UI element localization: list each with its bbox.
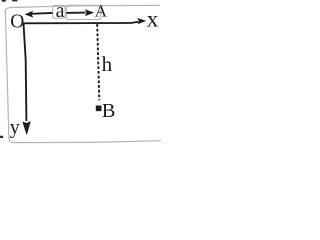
x axis	[23, 22, 139, 24]
cropped text remnant top-left 2	[12, 0, 17, 1]
outer grey frame (no right side)	[5, 5, 161, 142]
point B dot	[96, 106, 102, 112]
dimension arrow right head	[85, 9, 94, 16]
y axis	[24, 23, 27, 121]
svg-text:B: B	[102, 100, 116, 122]
svg-text:a: a	[56, 0, 65, 22]
label box around a	[53, 5, 65, 18]
cropped text remnant top-left	[1, 0, 6, 2]
svg-text:A: A	[95, 2, 108, 21]
dimension arrow left shaft	[31, 12, 53, 15]
dimension arrow right shaft	[66, 12, 85, 14]
svg-text:x: x	[147, 7, 159, 32]
label box around arrow to A	[66, 5, 101, 19]
svg-text:h: h	[102, 52, 113, 76]
cropped text remnant left edge	[0, 136, 3, 138]
dimension arrow left head	[25, 11, 34, 18]
svg-text:y: y	[10, 117, 20, 139]
x axis arrowhead	[137, 18, 146, 24]
svg-text:O: O	[10, 12, 24, 33]
dashed drop line from A	[97, 24, 99, 100]
y axis arrowhead	[22, 121, 31, 135]
